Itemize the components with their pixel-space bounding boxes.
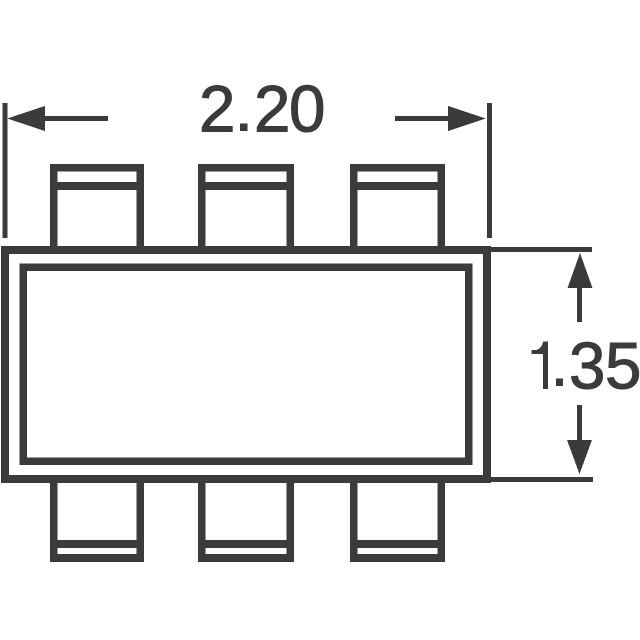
pin 5 bottom lead (202, 479, 290, 558)
pin 5 bottom lead shoulder line (198, 540, 294, 548)
width dimension left arrow tail (42, 116, 108, 121)
svg-text:0: 0 (289, 73, 325, 146)
pin 2 top lead shoulder line (198, 182, 294, 190)
height dimension label digit 1 (532, 342, 549, 389)
pin 3 top lead shoulder line (350, 182, 445, 190)
width dimension right arrow (448, 106, 486, 131)
pin 4 bottom lead shoulder line (350, 540, 445, 548)
svg-text:2: 2 (199, 73, 235, 146)
width dimension left extension line (3, 103, 8, 238)
height dimension label decimal point (556, 378, 563, 386)
height dimension bottom extension line (491, 477, 593, 482)
svg-text:3: 3 (569, 330, 605, 403)
pin 3 top lead (354, 168, 441, 254)
width dimension left arrow (7, 106, 45, 131)
height dimension down arrow stem (577, 405, 582, 440)
pin 2 top lead (202, 168, 290, 254)
pin 6 bottom lead shoulder line (50, 540, 144, 548)
height dimension up arrow (568, 253, 593, 288)
package body inner outline (23, 267, 469, 461)
svg-text:5: 5 (605, 330, 640, 403)
width dimension label decimal point (240, 124, 247, 131)
width dimension right arrow tail (395, 116, 451, 121)
width dimension right extension line (487, 103, 492, 238)
height dimension label 1.35 (569, 330, 640, 403)
package body outline (5, 250, 487, 479)
pin 1 top lead (54, 168, 140, 254)
pin 4 bottom lead (354, 479, 441, 558)
svg-text:2: 2 (254, 73, 290, 146)
height dimension top extension line (491, 247, 592, 252)
height dimension down arrow (567, 440, 592, 474)
width dimension label 2.20 (199, 73, 325, 146)
height dimension up arrow stem (577, 288, 582, 322)
pin 6 bottom lead (54, 479, 140, 558)
pin 1 top lead shoulder line (50, 182, 144, 190)
